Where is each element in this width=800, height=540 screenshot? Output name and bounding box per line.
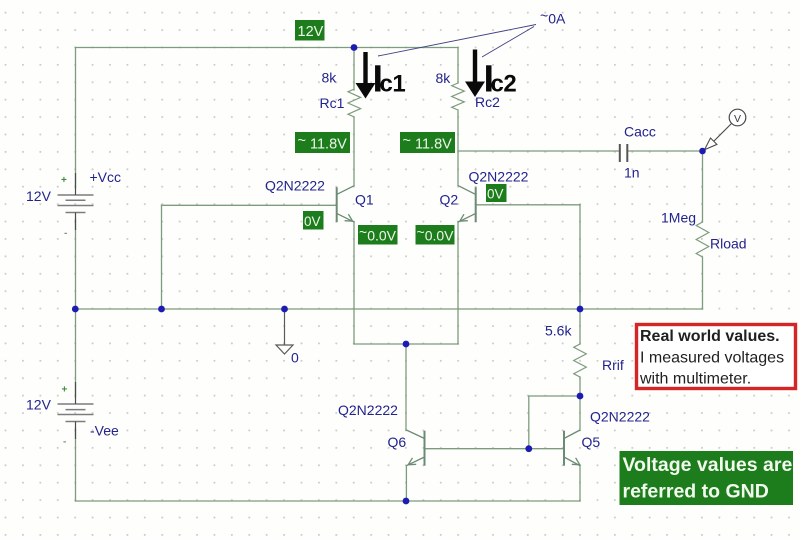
svg-text:Rc1: Rc1 (320, 95, 345, 111)
svg-text:+: + (61, 175, 67, 186)
svg-text:Q2N2222: Q2N2222 (590, 409, 650, 425)
svg-text:-: - (64, 228, 67, 239)
svg-text:Real world values.: Real world values. (640, 328, 780, 345)
svg-text:Rrif: Rrif (602, 357, 624, 373)
svg-text:0V: 0V (487, 187, 504, 202)
svg-text:referred to GND: referred to GND (623, 481, 769, 503)
svg-text:Q6: Q6 (388, 434, 407, 450)
svg-text:Rload: Rload (710, 236, 747, 252)
svg-text:Q2: Q2 (440, 192, 459, 208)
svg-text:12V: 12V (26, 397, 52, 413)
svg-text:with multimeter.: with multimeter. (639, 371, 751, 388)
svg-text:Q2N2222: Q2N2222 (338, 402, 398, 418)
svg-text:-Vee: -Vee (90, 423, 119, 439)
svg-text:1n: 1n (624, 165, 640, 181)
svg-text:-: - (63, 437, 66, 448)
svg-text:0V: 0V (304, 214, 321, 229)
svg-text:V: V (734, 113, 741, 125)
svg-text:Cacc: Cacc (624, 124, 656, 140)
svg-text:12V: 12V (298, 24, 324, 40)
svg-text:1Meg: 1Meg (661, 210, 696, 226)
svg-text:Q2N2222: Q2N2222 (265, 178, 325, 194)
svg-text:Voltage values are: Voltage values are (623, 454, 793, 476)
svg-text:c1: c1 (380, 71, 406, 98)
svg-text:Rc2: Rc2 (475, 94, 500, 110)
svg-text:8k: 8k (436, 70, 452, 86)
svg-text:Q1: Q1 (355, 192, 374, 208)
svg-text:I measured voltages: I measured voltages (640, 350, 784, 367)
svg-text:Q2N2222: Q2N2222 (469, 169, 529, 185)
svg-text:0: 0 (291, 350, 299, 366)
svg-text:8k: 8k (322, 70, 338, 86)
svg-text:+: + (62, 385, 68, 396)
svg-text:5.6k: 5.6k (545, 323, 572, 339)
svg-text:Q5: Q5 (582, 434, 601, 450)
svg-text:12V: 12V (26, 188, 52, 204)
svg-text:+Vcc: +Vcc (90, 169, 122, 185)
